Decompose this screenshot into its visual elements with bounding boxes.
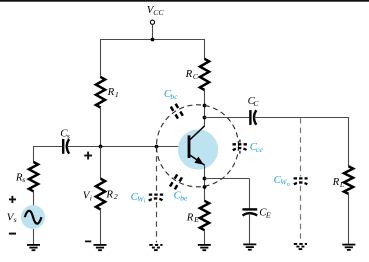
capacitor Cbc (171, 104, 183, 119)
label Vs (7, 211, 17, 224)
svg-text:CC: CC (153, 8, 164, 17)
label minus Vs (9, 233, 16, 235)
svg-text:C: C (193, 72, 199, 81)
label RE (186, 211, 199, 224)
node base R1R2 (99, 145, 103, 149)
svg-text:s: s (22, 175, 25, 184)
wire R2 to ground (100, 209, 102, 245)
resistor RL (344, 166, 353, 194)
wire R1 branch upper (100, 39, 102, 78)
wire collector output (205, 117, 250, 119)
wire Vs to ground (33, 229, 35, 245)
capacitor Cce lead dashes (239, 140, 241, 154)
label Cbe (174, 190, 188, 203)
label R1 (107, 86, 119, 99)
label Cs (60, 127, 70, 140)
wire CE to ground (249, 213, 251, 244)
resistor Rs (29, 162, 38, 191)
wire R2 branch top (100, 147, 102, 180)
ground CE (243, 244, 256, 249)
svg-text:ce: ce (256, 145, 263, 154)
svg-text:i: i (90, 193, 92, 202)
label Cbc (164, 88, 178, 101)
wire emitter (204, 165, 206, 201)
capacitor Cce (233, 144, 248, 150)
svg-text:R: R (185, 68, 193, 80)
svg-text:R: R (107, 86, 115, 98)
label plus Vi (84, 152, 92, 160)
wire Rs branch top (33, 146, 35, 162)
wire CE branch horizontal (205, 178, 250, 180)
wire CE branch vertical (249, 179, 251, 209)
node base circle crossing (155, 145, 159, 149)
label CC (248, 95, 260, 108)
capacitor CWo dashed lead upper (300, 118, 302, 176)
wire CC to RL (254, 117, 348, 119)
resistor R2 (96, 179, 105, 210)
ground CWo dashed (294, 244, 307, 249)
capacitor CWi (149, 195, 163, 201)
wire RL to ground (348, 194, 350, 245)
transistor Q1 body fill (178, 129, 218, 169)
svg-text:1: 1 (115, 90, 119, 99)
svg-text:s: s (14, 215, 17, 224)
ground CWi dashed (149, 245, 162, 250)
wire RC to collector (204, 90, 206, 127)
resistor RC (200, 59, 209, 90)
wire top rail (100, 39, 205, 41)
label plus Vs (9, 196, 16, 203)
node junction VCC rail (151, 38, 155, 42)
capacitor CWi dashed lead lower (156, 202, 158, 243)
label Rs (15, 171, 25, 184)
label CWi (131, 191, 146, 205)
source Vs (21, 205, 45, 229)
wire RC branch upper (204, 39, 206, 59)
transistor Q1 (189, 126, 205, 165)
capacitor CC (250, 110, 256, 125)
wire R1 to base node (100, 108, 102, 147)
resistor R1 (96, 77, 105, 107)
wire Rs to Vs (33, 191, 35, 206)
node collector circle crossing (203, 104, 207, 108)
svg-text:R: R (186, 211, 194, 223)
label CWo (274, 174, 290, 188)
wire RE to ground (204, 230, 206, 245)
label minus Vi (85, 240, 91, 242)
resistor RE (200, 201, 209, 230)
svg-text:be: be (180, 194, 188, 203)
capacitor CWo dashed lead lower (300, 186, 302, 242)
capacitor Cbe (170, 174, 182, 189)
wire RL branch upper (348, 117, 350, 167)
node emitter circle crossing (203, 185, 207, 189)
ground RE (198, 245, 211, 250)
label R2 (105, 189, 118, 202)
svg-text:s: s (67, 131, 70, 140)
svg-text:o: o (287, 181, 290, 188)
svg-text:E: E (193, 215, 199, 224)
label RC (185, 68, 199, 81)
capacitor CWo (294, 178, 308, 184)
svg-text:L: L (339, 180, 344, 189)
label Vi (83, 189, 92, 202)
svg-text:i: i (144, 198, 146, 205)
VCC terminal (150, 20, 154, 39)
label Cce (250, 141, 264, 154)
ground Vs (27, 245, 40, 250)
ground R2 (94, 245, 107, 250)
svg-text:E: E (265, 211, 271, 220)
svg-text:R: R (332, 176, 340, 188)
capacitor CE (242, 209, 257, 215)
label CE (259, 207, 271, 220)
svg-text:R: R (105, 189, 113, 201)
transistor package dashed circle (157, 105, 239, 187)
svg-text:C: C (253, 99, 259, 108)
ground RL (342, 245, 355, 250)
label VCC (147, 4, 165, 17)
node collector output tap (203, 116, 207, 120)
capacitor Cs (63, 139, 69, 154)
wire base (34, 146, 63, 148)
svg-text:2: 2 (114, 192, 118, 201)
top border rule (0, 0, 369, 2)
node emitter CE tap (203, 177, 207, 181)
label RL (332, 176, 345, 189)
wire Cs to base (67, 146, 189, 148)
svg-text:bc: bc (170, 92, 178, 101)
capacitor CWi dashed lead upper (156, 147, 158, 193)
